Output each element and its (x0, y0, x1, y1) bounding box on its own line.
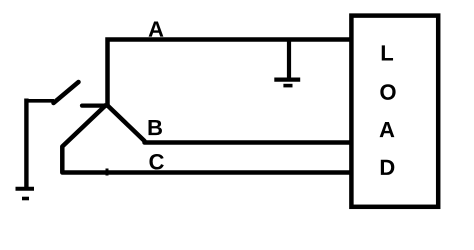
switch S1 blade (54, 82, 79, 103)
load box U1 (351, 16, 438, 207)
label LOAD (380, 45, 396, 175)
junction tick on wire C (106, 169, 109, 176)
wire from ground G2 to switch (25, 99, 54, 189)
switch S1 right contact wire (82, 103, 107, 107)
wire A (108, 40, 352, 107)
wire C (62, 105, 351, 173)
label C (149, 154, 163, 170)
label B (149, 120, 162, 135)
wire B (107, 105, 352, 143)
label A (149, 21, 164, 36)
ground G1 on wire A (274, 40, 300, 86)
ground G2 bottom left (16, 189, 35, 199)
